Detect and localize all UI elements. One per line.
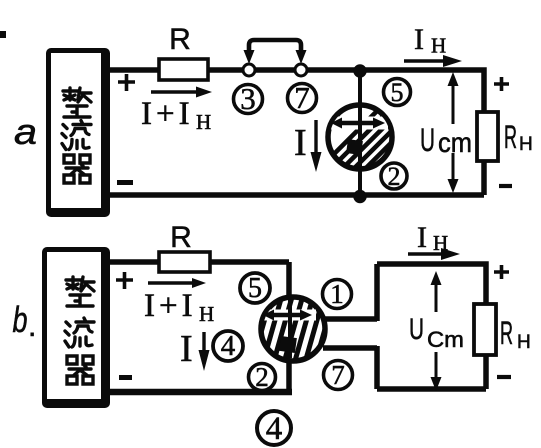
svg-text:H: H (519, 134, 533, 155)
svg-text:3: 3 (240, 81, 256, 116)
svg-text:5: 5 (391, 78, 404, 107)
svg-text:I: I (414, 23, 424, 56)
svg-text:H: H (431, 34, 446, 58)
svg-text:7: 7 (331, 360, 345, 390)
svg-text:R: R (504, 119, 517, 155)
svg-text:R: R (500, 315, 513, 351)
svg-text:I: I (180, 328, 193, 370)
svg-text:2: 2 (255, 362, 269, 392)
svg-text:U: U (409, 313, 424, 346)
svg-text:R: R (170, 221, 192, 254)
svg-text:I+I: I+I (141, 96, 194, 132)
svg-text:.: . (28, 310, 36, 343)
svg-text:4: 4 (221, 330, 236, 362)
svg-text:Cm: Cm (427, 327, 464, 352)
svg-text:cm: cm (438, 127, 472, 158)
svg-text:R: R (169, 23, 191, 56)
svg-text:H: H (199, 302, 214, 326)
svg-text:4: 4 (266, 411, 283, 447)
svg-text:2: 2 (388, 162, 401, 191)
svg-text:H: H (196, 110, 211, 134)
svg-text:b: b (13, 299, 28, 340)
svg-text:I+I: I+I (144, 288, 197, 324)
svg-text:H: H (517, 332, 531, 353)
svg-text:1: 1 (330, 279, 344, 309)
svg-text:a: a (14, 111, 37, 152)
svg-text:5: 5 (248, 273, 262, 304)
svg-text:I: I (417, 221, 427, 254)
svg-text:I: I (294, 122, 307, 164)
svg-text:7: 7 (294, 80, 310, 115)
svg-text:U: U (420, 122, 435, 158)
